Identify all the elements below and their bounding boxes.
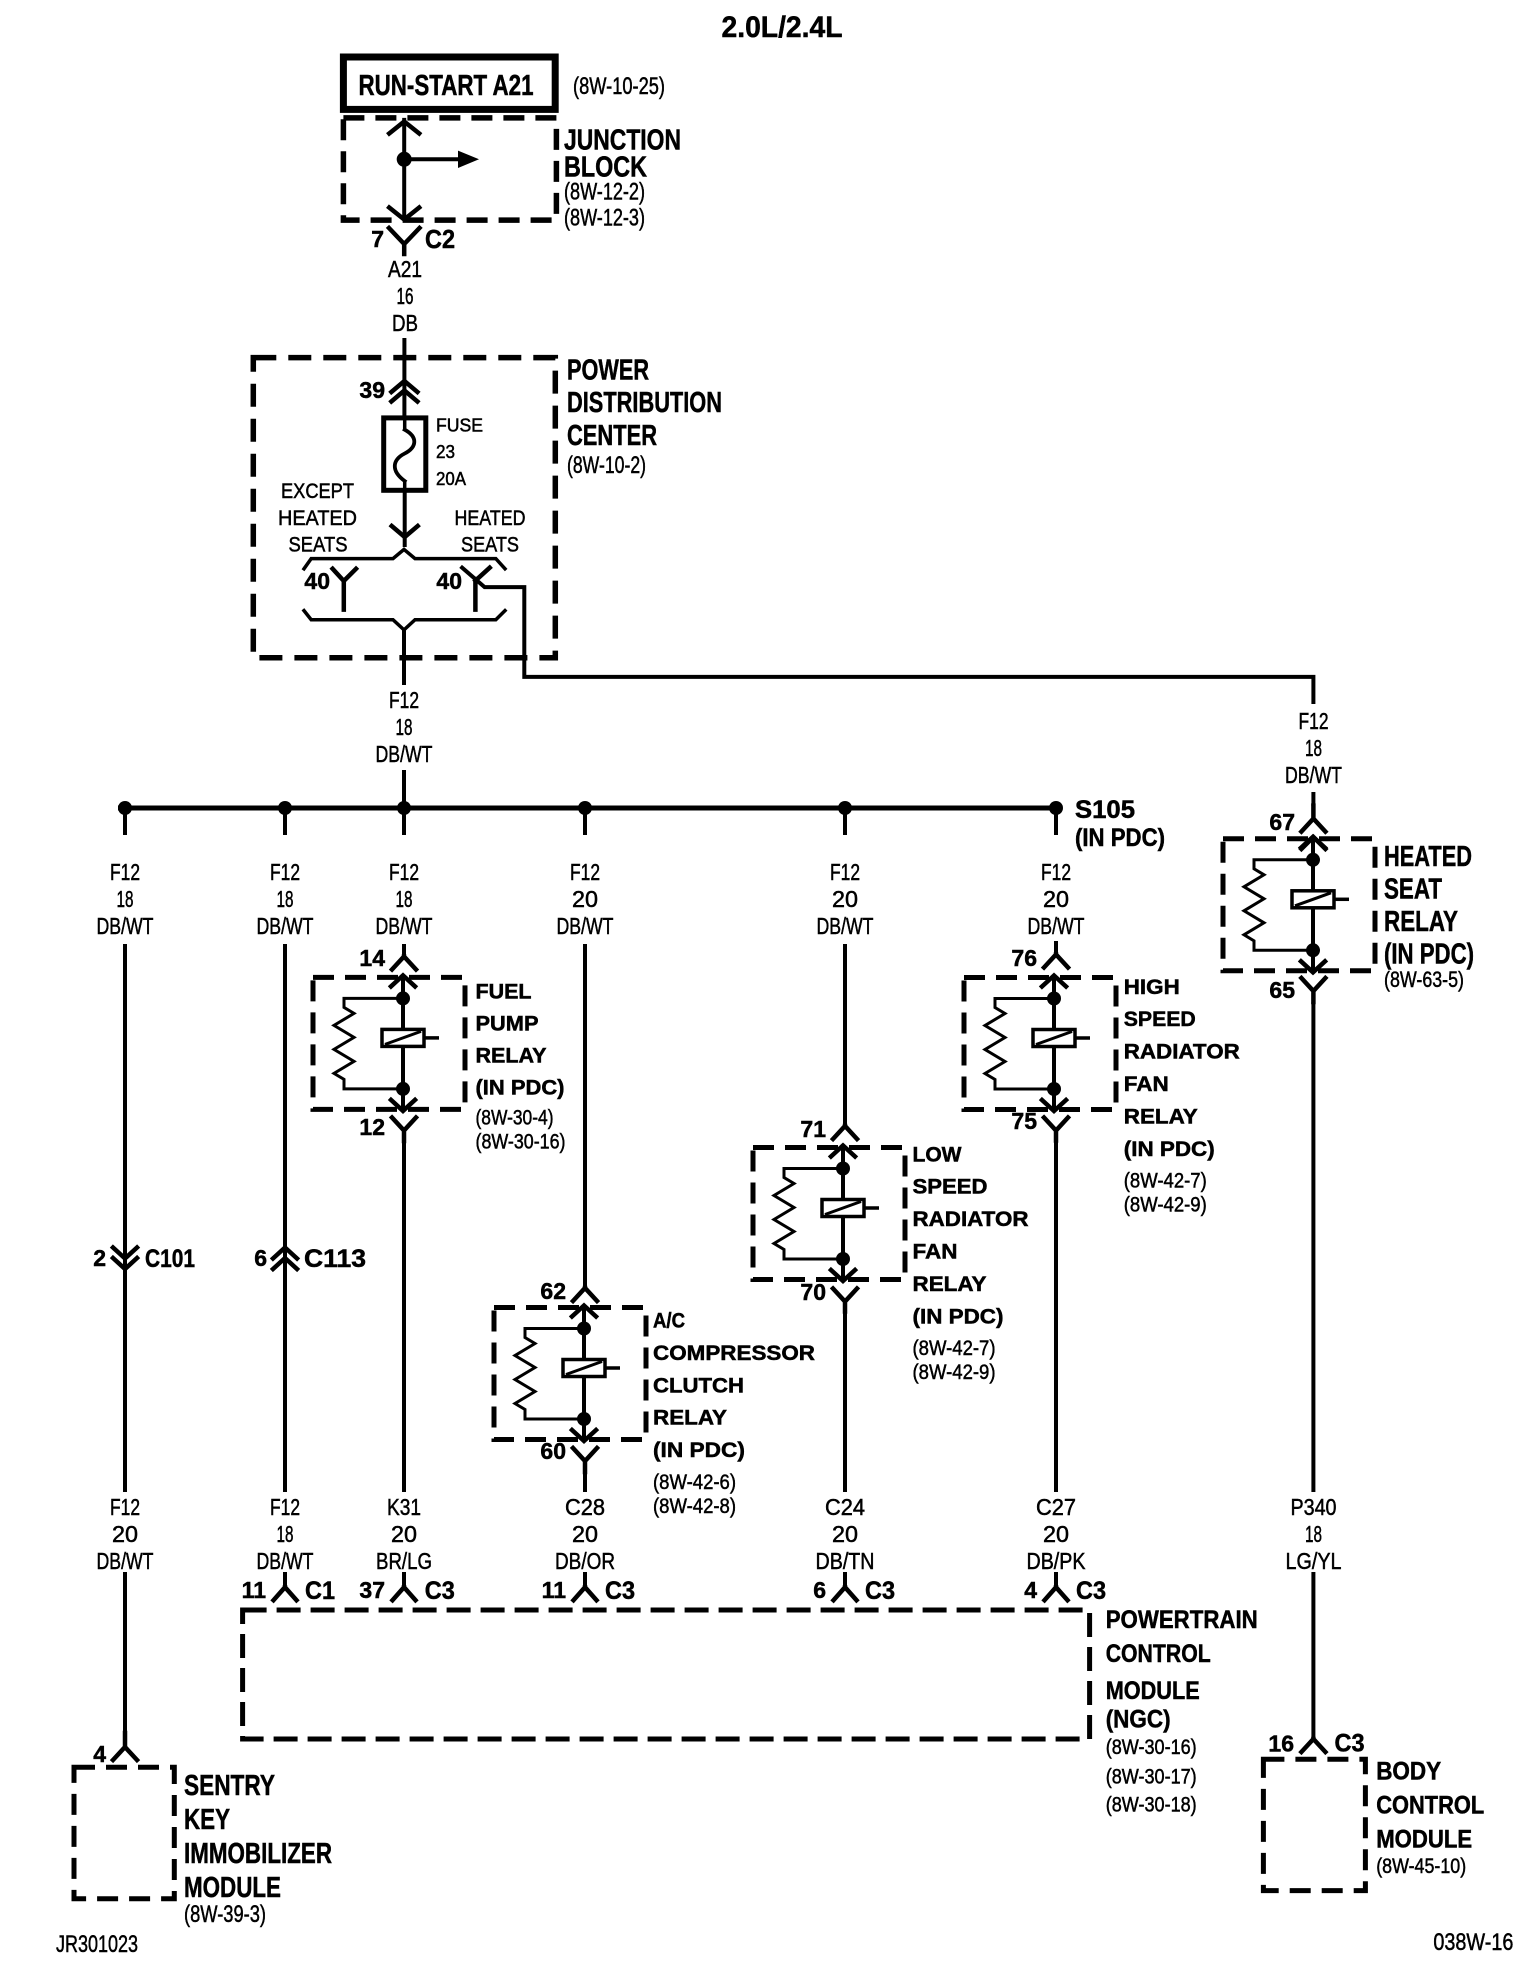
svg-text:20: 20 xyxy=(1043,1521,1069,1547)
svg-text:A21: A21 xyxy=(388,256,422,282)
connector C3 pin 11 xyxy=(542,1577,635,1605)
svg-text:(8W-42-8): (8W-42-8) xyxy=(653,1495,736,1518)
svg-text:RELAY: RELAY xyxy=(913,1273,987,1296)
svg-text:RUN-START A21: RUN-START A21 xyxy=(359,70,534,102)
BCM labels xyxy=(1376,1757,1484,1878)
a/c compressor clutch relay labels xyxy=(653,1310,815,1519)
wire xyxy=(1311,792,1315,806)
svg-text:(8W-30-16): (8W-30-16) xyxy=(1106,1736,1197,1759)
wire xyxy=(1311,1572,1315,1739)
svg-text:(8W-30-17): (8W-30-17) xyxy=(1106,1766,1197,1789)
connector C2 pin 7 xyxy=(371,224,455,254)
svg-text:(8W-30-18): (8W-30-18) xyxy=(1106,1794,1197,1817)
svg-text:SPEED: SPEED xyxy=(1124,1008,1196,1031)
wire from fuse to splice xyxy=(403,490,407,547)
svg-text:F12: F12 xyxy=(1299,708,1329,734)
wire xyxy=(843,1572,847,1587)
splice brace bottom xyxy=(304,611,505,630)
connector pin 39 xyxy=(359,377,417,403)
svg-text:S105: S105 xyxy=(1075,796,1135,824)
svg-text:JR301023: JR301023 xyxy=(56,1931,138,1958)
svg-text:11: 11 xyxy=(242,1577,267,1603)
svg-text:16: 16 xyxy=(397,283,414,309)
svg-text:LG/YL: LG/YL xyxy=(1286,1548,1342,1574)
wire from C2 to PDC xyxy=(402,338,406,358)
wire into PDC xyxy=(402,358,406,418)
svg-text:DB/WT: DB/WT xyxy=(97,1548,154,1574)
wire xyxy=(402,1572,406,1587)
svg-text:(8W-42-6): (8W-42-6) xyxy=(653,1471,736,1494)
svg-text:39: 39 xyxy=(359,377,385,403)
svg-text:(8W-12-2): (8W-12-2) xyxy=(564,179,645,206)
svg-text:75: 75 xyxy=(1011,1108,1037,1134)
svg-text:18: 18 xyxy=(117,886,134,912)
SKIM labels xyxy=(184,1770,332,1928)
svg-text:CLUTCH: CLUTCH xyxy=(653,1374,744,1397)
svg-text:F12: F12 xyxy=(1041,859,1071,885)
svg-text:2: 2 xyxy=(93,1245,106,1271)
relay low speed radiator fan (coil, resistor) xyxy=(753,1146,905,1282)
svg-text:37: 37 xyxy=(359,1577,385,1603)
node S105 tap at x=125 xyxy=(118,801,132,815)
node S105 tap at x=404 xyxy=(397,801,411,815)
svg-text:18: 18 xyxy=(277,1521,294,1547)
svg-text:C3: C3 xyxy=(1335,1730,1365,1758)
svg-text:(8W-39-3): (8W-39-3) xyxy=(184,1901,266,1928)
low speed radiator fan relay labels xyxy=(913,1143,1029,1384)
svg-text:76: 76 xyxy=(1011,945,1037,971)
svg-text:40: 40 xyxy=(436,568,462,594)
body control module box xyxy=(1263,1759,1365,1890)
wire xyxy=(583,1572,587,1587)
wire xyxy=(402,770,406,808)
svg-text:C101: C101 xyxy=(145,1245,195,1273)
svg-text:RELAY: RELAY xyxy=(1384,906,1458,938)
svg-text:DB/WT: DB/WT xyxy=(376,913,433,939)
fuse block RUN-START A21 xyxy=(343,57,555,109)
node S105 tap at x=585 xyxy=(578,801,592,815)
svg-text:POWER: POWER xyxy=(567,354,649,386)
connector pin 4 SKIM xyxy=(93,1733,137,1767)
wire xyxy=(583,1472,587,1492)
svg-text:DB: DB xyxy=(392,310,418,336)
svg-text:F12: F12 xyxy=(389,687,419,713)
svg-text:(8W-42-9): (8W-42-9) xyxy=(1124,1194,1207,1217)
svg-text:FAN: FAN xyxy=(1124,1073,1169,1096)
svg-text:20: 20 xyxy=(1043,886,1069,912)
node junction block splice xyxy=(397,152,412,167)
svg-text:20: 20 xyxy=(832,886,858,912)
svg-text:CENTER: CENTER xyxy=(567,420,657,452)
connector C3 pin 37 xyxy=(359,1577,454,1605)
svg-text:C113: C113 xyxy=(304,1245,366,1273)
node S105 tap at x=285 xyxy=(278,801,292,815)
svg-text:HEATED: HEATED xyxy=(1384,841,1472,873)
wire inside junction block xyxy=(402,118,406,220)
svg-text:SPEED: SPEED xyxy=(913,1176,988,1199)
wire stub below bus x=845 xyxy=(843,808,847,835)
relay a/c compressor clutch (coil, resistor) xyxy=(494,1306,646,1442)
svg-text:67: 67 xyxy=(1269,809,1295,835)
svg-text:12: 12 xyxy=(359,1114,385,1140)
splice brace top xyxy=(304,549,505,568)
relay heated seat (coil, resistor) xyxy=(1223,837,1375,973)
svg-text:DB/WT: DB/WT xyxy=(1028,913,1085,939)
svg-text:F12: F12 xyxy=(270,859,300,885)
connector pin 70 xyxy=(800,1279,857,1312)
power distribution center box xyxy=(253,358,555,658)
arrow on wire xyxy=(392,526,418,537)
svg-text:SEATS: SEATS xyxy=(289,533,348,556)
svg-text:6: 6 xyxy=(254,1245,267,1271)
svg-text:C28: C28 xyxy=(565,1494,605,1520)
svg-text:(IN PDC): (IN PDC) xyxy=(653,1439,745,1462)
wire stub below bus x=1056 xyxy=(1054,808,1058,835)
heated seat relay labels xyxy=(1384,841,1474,992)
svg-text:20: 20 xyxy=(572,1521,598,1547)
svg-text:MODULE: MODULE xyxy=(1376,1825,1472,1853)
svg-text:RELAY: RELAY xyxy=(653,1407,727,1430)
junction block labels xyxy=(564,125,681,232)
svg-text:DB/WT: DB/WT xyxy=(257,1548,314,1574)
svg-text:18: 18 xyxy=(277,886,294,912)
svg-text:FUSE: FUSE xyxy=(436,416,483,436)
svg-text:18: 18 xyxy=(396,714,413,740)
svg-text:(8W-10-2): (8W-10-2) xyxy=(567,452,646,479)
wire stub below bus x=285 xyxy=(283,808,287,835)
svg-text:C3: C3 xyxy=(605,1577,635,1605)
wire xyxy=(402,1141,406,1492)
svg-text:RADIATOR: RADIATOR xyxy=(913,1208,1029,1231)
wire column F12 left xyxy=(123,944,127,1246)
svg-text:HEATED: HEATED xyxy=(278,507,357,530)
svg-text:DB/WT: DB/WT xyxy=(817,913,874,939)
svg-text:C27: C27 xyxy=(1036,1494,1076,1520)
connector pin 67 xyxy=(1269,806,1325,835)
svg-text:DB/OR: DB/OR xyxy=(555,1548,615,1574)
connector pin 40 left xyxy=(304,568,356,610)
connector pin 40 right xyxy=(436,568,489,610)
svg-text:DB/WT: DB/WT xyxy=(257,913,314,939)
svg-text:20: 20 xyxy=(572,886,598,912)
svg-text:F12: F12 xyxy=(389,859,419,885)
svg-text:DB/WT: DB/WT xyxy=(1285,762,1342,788)
svg-text:CONTROL: CONTROL xyxy=(1106,1640,1211,1668)
svg-text:DISTRIBUTION: DISTRIBUTION xyxy=(567,387,722,419)
wire stub below bus x=404 xyxy=(402,808,406,835)
svg-text:SEATS: SEATS xyxy=(461,533,519,556)
wire column 2 xyxy=(283,944,287,1246)
svg-text:20A: 20A xyxy=(436,469,466,489)
wire xyxy=(123,1272,127,1492)
svg-text:FAN: FAN xyxy=(913,1240,958,1263)
svg-text:FUEL: FUEL xyxy=(476,981,532,1004)
connector pin 14 xyxy=(359,945,416,971)
svg-text:HEATED: HEATED xyxy=(455,507,526,530)
svg-text:(8W-10-25): (8W-10-25) xyxy=(573,73,665,100)
svg-text:C2: C2 xyxy=(425,224,455,254)
svg-text:COMPRESSOR: COMPRESSOR xyxy=(653,1342,815,1365)
svg-text:14: 14 xyxy=(359,945,385,971)
svg-text:4: 4 xyxy=(93,1741,106,1767)
connector arrow into junction block xyxy=(389,122,419,134)
svg-text:(8W-30-4): (8W-30-4) xyxy=(476,1107,554,1130)
svg-text:(8W-42-9): (8W-42-9) xyxy=(913,1361,996,1384)
svg-text:F12: F12 xyxy=(110,1494,140,1520)
svg-text:EXCEPT: EXCEPT xyxy=(281,480,354,503)
svg-text:BODY: BODY xyxy=(1376,1757,1441,1785)
svg-text:20: 20 xyxy=(112,1521,138,1547)
connector C3 pin 4 xyxy=(1024,1577,1106,1605)
svg-text:BR/LG: BR/LG xyxy=(376,1548,432,1574)
wire from PDC down to S105 xyxy=(402,630,406,685)
svg-text:F12: F12 xyxy=(570,859,600,885)
svg-text:DB/WT: DB/WT xyxy=(97,913,154,939)
label S105 (IN PDC) xyxy=(1075,796,1165,852)
label heated seats xyxy=(455,507,526,557)
svg-text:(NGC): (NGC) xyxy=(1106,1706,1171,1734)
connector C3 pin 16 xyxy=(1268,1730,1364,1758)
svg-text:18: 18 xyxy=(1305,1521,1322,1547)
high speed radiator fan relay labels xyxy=(1124,976,1240,1217)
svg-text:DB/WT: DB/WT xyxy=(376,741,433,767)
svg-text:RADIATOR: RADIATOR xyxy=(1124,1041,1240,1064)
svg-text:C24: C24 xyxy=(825,1494,865,1520)
wire xyxy=(1054,1141,1058,1492)
fuel pump relay labels xyxy=(476,981,566,1154)
svg-text:DB/TN: DB/TN xyxy=(816,1548,875,1574)
svg-text:6: 6 xyxy=(813,1577,826,1603)
svg-text:(IN PDC): (IN PDC) xyxy=(476,1077,565,1100)
wire column 5 xyxy=(843,944,847,1126)
svg-text:IMMOBILIZER: IMMOBILIZER xyxy=(184,1838,332,1870)
svg-text:DB/WT: DB/WT xyxy=(557,913,614,939)
svg-text:18: 18 xyxy=(396,886,413,912)
svg-text:20: 20 xyxy=(391,1521,417,1547)
connector C1 pin 11 xyxy=(242,1577,335,1605)
wire xyxy=(283,1572,287,1587)
wire xyxy=(1054,1572,1058,1587)
connector pin 75 xyxy=(1011,1108,1068,1141)
svg-text:F12: F12 xyxy=(110,859,140,885)
svg-text:(IN PDC): (IN PDC) xyxy=(1075,824,1165,852)
connector pin 62 xyxy=(540,1278,597,1304)
connector pin 12 xyxy=(359,1114,416,1141)
node S105 tap at x=845 xyxy=(838,801,852,815)
svg-text:F12: F12 xyxy=(830,859,860,885)
svg-text:70: 70 xyxy=(800,1279,826,1305)
wire xyxy=(123,1572,127,1734)
junction block box xyxy=(343,118,556,220)
svg-text:KEY: KEY xyxy=(184,1804,230,1836)
connector pin 71 xyxy=(800,1116,857,1142)
svg-text:4: 4 xyxy=(1024,1577,1037,1603)
svg-text:MODULE: MODULE xyxy=(1106,1677,1200,1705)
wire stub below bus x=585 xyxy=(583,808,587,835)
svg-text:71: 71 xyxy=(800,1116,826,1142)
svg-text:SENTRY: SENTRY xyxy=(184,1770,275,1802)
svg-text:(8W-45-10): (8W-45-10) xyxy=(1376,1855,1466,1878)
svg-text:PUMP: PUMP xyxy=(476,1013,539,1036)
svg-text:(8W-42-7): (8W-42-7) xyxy=(1124,1170,1207,1193)
node S105 tap at x=1056 xyxy=(1049,801,1063,815)
svg-text:2.0L/2.4L: 2.0L/2.4L xyxy=(722,11,843,44)
connector pin 60 xyxy=(540,1438,597,1472)
connector C113 pin 6 xyxy=(254,1245,366,1273)
svg-text:62: 62 xyxy=(540,1278,566,1304)
svg-text:65: 65 xyxy=(1269,977,1295,1003)
svg-text:RELAY: RELAY xyxy=(476,1045,547,1068)
svg-text:A/C: A/C xyxy=(653,1310,685,1333)
connector arrow out of junction block xyxy=(389,208,419,220)
wire xyxy=(1311,1002,1315,1492)
wire xyxy=(283,1272,287,1492)
svg-text:LOW: LOW xyxy=(913,1143,962,1166)
svg-text:(IN PDC): (IN PDC) xyxy=(913,1305,1004,1328)
svg-text:(8W-63-5): (8W-63-5) xyxy=(1384,967,1464,992)
svg-text:60: 60 xyxy=(540,1438,566,1464)
svg-text:038W-16: 038W-16 xyxy=(1433,1929,1513,1956)
svg-text:SEAT: SEAT xyxy=(1384,874,1442,906)
svg-text:C3: C3 xyxy=(1076,1577,1106,1605)
svg-text:F12: F12 xyxy=(270,1494,300,1520)
relay high speed radiator fan (coil, resistor) xyxy=(964,976,1116,1112)
wire stub below bus x=125 xyxy=(123,808,127,835)
connector C101 pin 2 xyxy=(93,1245,195,1273)
connector C3 pin 6 xyxy=(813,1577,895,1605)
svg-text:7: 7 xyxy=(371,226,384,252)
connector pin 65 xyxy=(1269,977,1325,1003)
wire column 3 xyxy=(402,944,406,957)
svg-text:18: 18 xyxy=(1305,735,1322,761)
svg-text:(8W-30-16): (8W-30-16) xyxy=(476,1131,566,1154)
svg-text:(IN PDC): (IN PDC) xyxy=(1124,1138,1215,1161)
arrow feed to other circuits xyxy=(404,157,458,161)
svg-text:RELAY: RELAY xyxy=(1124,1105,1198,1128)
sentry key immobilizer module box xyxy=(74,1767,174,1899)
svg-text:40: 40 xyxy=(304,568,330,594)
wire column 6 xyxy=(1054,941,1058,955)
label except heated seats xyxy=(278,480,357,556)
connector pin 76 xyxy=(1011,945,1068,971)
svg-text:C3: C3 xyxy=(425,1577,455,1605)
svg-text:C1: C1 xyxy=(305,1577,335,1605)
fuse 23 20A xyxy=(384,416,483,491)
connector arrow into heated seat relay xyxy=(1301,837,1325,849)
powertrain control module box xyxy=(243,1610,1090,1739)
svg-text:DB/PK: DB/PK xyxy=(1027,1548,1087,1574)
svg-text:(IN PDC): (IN PDC) xyxy=(1384,939,1474,971)
svg-text:16: 16 xyxy=(1268,1731,1294,1757)
wire column 4 xyxy=(583,944,587,1288)
relay fuel pump (coil, resistor) xyxy=(313,975,465,1111)
svg-text:(8W-12-3): (8W-12-3) xyxy=(564,205,645,232)
splice S105 bus xyxy=(118,806,1062,811)
svg-text:(8W-42-7): (8W-42-7) xyxy=(913,1337,996,1360)
svg-text:P340: P340 xyxy=(1291,1494,1337,1520)
PCM labels xyxy=(1106,1606,1258,1817)
svg-text:CONTROL: CONTROL xyxy=(1376,1791,1484,1819)
svg-text:C3: C3 xyxy=(865,1577,895,1605)
svg-text:HIGH: HIGH xyxy=(1124,976,1180,999)
wire heated seats feed to relay column xyxy=(462,568,1313,702)
svg-text:POWERTRAIN: POWERTRAIN xyxy=(1106,1606,1258,1634)
PDC labels xyxy=(567,354,722,479)
svg-text:11: 11 xyxy=(542,1577,567,1603)
svg-text:K31: K31 xyxy=(387,1494,421,1520)
wire xyxy=(843,1312,847,1492)
svg-text:MODULE: MODULE xyxy=(184,1872,281,1904)
svg-text:23: 23 xyxy=(436,442,455,462)
svg-text:20: 20 xyxy=(832,1521,858,1547)
